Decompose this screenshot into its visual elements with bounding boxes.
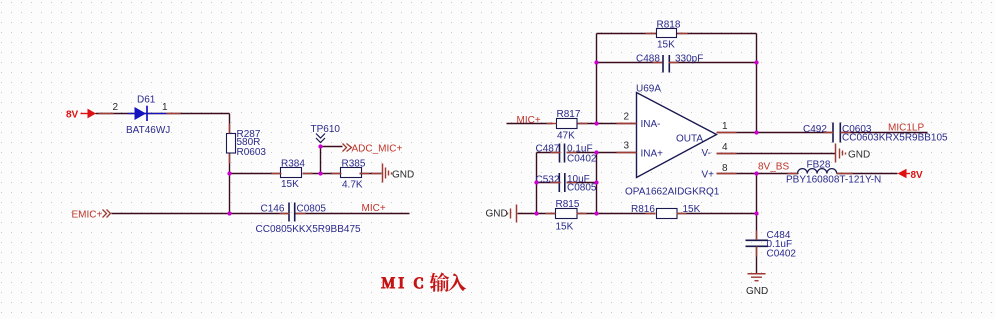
junction (536,213) <box>534 211 538 215</box>
ferrite bead FB28 <box>798 169 837 174</box>
resistor R385 <box>341 168 362 178</box>
junction (756,133) <box>754 130 758 134</box>
wire C488 row right <box>669 62 757 64</box>
wire to R384 <box>230 173 282 175</box>
svg-text:CC0805KKX5R9BB475: CC0805KKX5R9BB475 <box>256 224 362 235</box>
junction (756,213) <box>754 211 758 215</box>
pin stubs (brick red pin leads over wires, left section) <box>99 114 382 214</box>
wire R384 to R385 <box>303 173 342 175</box>
port EMIC+ <box>72 210 111 221</box>
wire TP to ADC_MIC+ <box>321 146 343 148</box>
junction (536,183) <box>534 180 538 184</box>
title letter M <box>382 278 395 289</box>
wire R815 to R816 <box>577 213 656 215</box>
svg-text:R385: R385 <box>342 159 366 170</box>
svg-text:OPA1662AIDGKRQ1: OPA1662AIDGKRQ1 <box>625 187 720 198</box>
junction (596,213) <box>594 211 598 215</box>
junction (321,147) <box>318 144 322 148</box>
junction (229,173) <box>227 171 231 175</box>
capacitor C146 <box>289 203 295 222</box>
junction (596,124) <box>594 121 598 125</box>
wire feedback top row <box>597 33 757 35</box>
wire 8V row <box>96 113 230 115</box>
svg-text:MIC+: MIC+ <box>517 115 541 126</box>
wire MIC+ to R817 <box>507 123 553 125</box>
ground (V- pin) <box>836 144 846 163</box>
wire feedback left vertical <box>596 34 598 124</box>
wire TP branch vertical <box>320 147 322 174</box>
svg-text:FB28: FB28 <box>807 160 831 171</box>
resistor R287 <box>227 134 236 154</box>
svg-text:GND: GND <box>486 209 508 220</box>
junction (229,213) <box>227 211 231 215</box>
wire R817 to INA- <box>578 123 637 125</box>
capacitor C487 <box>560 144 565 163</box>
svg-text:2: 2 <box>113 102 119 113</box>
capacitor C532 <box>559 173 565 192</box>
wire FB28 to 8V port <box>837 173 898 175</box>
wire C492 to MIC1LP <box>841 132 928 134</box>
svg-text:C492: C492 <box>803 124 827 135</box>
title glyph 输 <box>430 273 450 292</box>
svg-text:C532: C532 <box>536 175 560 186</box>
wire vertical rail x=229 <box>229 114 231 214</box>
wire C488 row left <box>597 62 663 64</box>
wire V+ rail down to C484 <box>756 174 758 241</box>
title letter I <box>399 278 404 289</box>
wire C484 to ground <box>756 247 758 274</box>
svg-text:R0603: R0603 <box>237 147 267 158</box>
junction (596,62) <box>594 60 598 64</box>
svg-text:BAT46WJ: BAT46WJ <box>126 125 170 136</box>
wire right rail x=596 <box>596 153 598 214</box>
svg-text:OUTA: OUTA <box>676 134 703 145</box>
wire C532 row left <box>537 182 561 184</box>
svg-text:TP610: TP610 <box>311 124 341 135</box>
junction (756,173) <box>754 171 758 175</box>
resistor R384 <box>281 168 302 178</box>
svg-text:4.7K: 4.7K <box>342 180 363 191</box>
svg-text:4: 4 <box>722 142 728 153</box>
svg-text:330pF: 330pF <box>675 54 703 65</box>
title glyph 入 <box>448 273 466 291</box>
wire EMIC+ row right <box>296 213 410 215</box>
wire INA+ row right <box>567 152 637 154</box>
op-amp U69A <box>637 93 717 178</box>
svg-text:PBY160808T-121Y-N: PBY160808T-121Y-N <box>786 174 881 185</box>
ground (below C484) <box>748 274 766 281</box>
svg-text:8V_BS: 8V_BS <box>758 162 789 173</box>
capacitor C488 <box>663 55 669 73</box>
svg-text:MIC1LP: MIC1LP <box>888 123 924 134</box>
svg-text:D61: D61 <box>137 94 156 105</box>
svg-text:R817: R817 <box>557 109 581 120</box>
svg-text:CC0603KRX5R9BB105: CC0603KRX5R9BB105 <box>842 132 948 143</box>
wire R385 to GND <box>360 173 382 175</box>
capacitor C484 <box>746 240 769 246</box>
svg-text:47K: 47K <box>557 131 575 142</box>
wire R816 to V+ rail <box>677 213 757 215</box>
resistor R818 <box>657 29 677 38</box>
wire GND to R815 <box>518 213 556 215</box>
diode D61 <box>128 106 167 121</box>
junction (321,173) <box>318 171 322 175</box>
svg-text:V-: V- <box>702 148 711 159</box>
resistor R817 <box>557 119 578 129</box>
svg-text:U69A: U69A <box>636 84 661 95</box>
svg-text:1: 1 <box>722 121 728 132</box>
wire EMIC+ row left <box>112 213 290 215</box>
ground (left, near R815) <box>508 205 517 223</box>
junction (596,183) <box>594 180 598 184</box>
svg-text:R384: R384 <box>281 159 305 170</box>
svg-text:V+: V+ <box>702 170 715 181</box>
title letter C <box>414 277 423 288</box>
junction (756,62) <box>754 60 758 64</box>
wire V- row <box>717 153 836 155</box>
svg-text:8V: 8V <box>66 110 79 121</box>
svg-text:3: 3 <box>624 141 630 152</box>
capacitor C492 <box>833 123 840 143</box>
svg-text:15K: 15K <box>657 40 675 51</box>
power port 8V (right) <box>898 169 924 181</box>
svg-text:INA+: INA+ <box>641 149 664 160</box>
port ADC_MIC+ chevrons <box>343 144 352 152</box>
svg-text:ADC_MIC+: ADC_MIC+ <box>352 144 403 155</box>
svg-text:8V: 8V <box>911 170 924 181</box>
ground (right of R385) <box>383 164 392 183</box>
svg-text:15K: 15K <box>281 179 299 190</box>
test point TP610 <box>316 134 325 143</box>
svg-text:15K: 15K <box>556 222 574 233</box>
svg-text:INA-: INA- <box>641 119 661 130</box>
svg-text:R815: R815 <box>556 199 580 210</box>
svg-text:8: 8 <box>722 163 728 174</box>
wire V+ row left <box>717 173 799 175</box>
svg-text:GND: GND <box>848 150 870 161</box>
pin stubs (brick red pin leads over wires, right section) <box>546 34 853 257</box>
junction (596,152.5) <box>594 150 598 154</box>
svg-text:R818: R818 <box>657 20 681 31</box>
wire feedback right vertical <box>756 34 758 133</box>
svg-text:MIC+: MIC+ <box>362 203 386 214</box>
svg-text:C0805: C0805 <box>567 183 597 194</box>
power port 8V (left) <box>66 109 96 121</box>
svg-text:1: 1 <box>162 102 168 113</box>
svg-text:GND: GND <box>392 170 414 181</box>
wire C532 row right <box>567 182 597 184</box>
svg-text:GND: GND <box>746 286 768 297</box>
wire OUTA row <box>717 132 834 134</box>
svg-text:2: 2 <box>624 112 630 123</box>
wire INA+ row left <box>537 152 561 154</box>
svg-text:C0402: C0402 <box>767 248 797 259</box>
resistor R815 <box>556 209 578 219</box>
svg-text:EMIC+: EMIC+ <box>72 210 103 221</box>
resistor R816 <box>657 209 678 219</box>
svg-text:C0402: C0402 <box>567 154 597 165</box>
wire left rail x=536 <box>536 153 538 214</box>
